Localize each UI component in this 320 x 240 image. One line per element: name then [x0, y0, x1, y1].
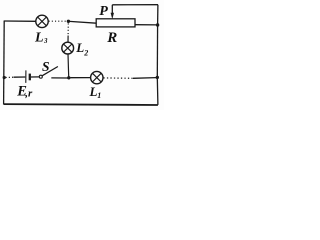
wire right vertical upper [157, 5, 159, 25]
junction node left middle [3, 76, 6, 79]
wire left vertical [3, 21, 6, 105]
svg-text:L: L [34, 30, 44, 45]
junction node right upper [156, 23, 159, 26]
svg-text:P: P [99, 4, 108, 19]
lamp L1 [91, 71, 103, 83]
wire dotted node A down [67, 23, 69, 36]
svg-text:3: 3 [43, 37, 48, 45]
svg-text:1: 1 [97, 91, 101, 100]
wire resistor right to corner [135, 24, 158, 26]
junction node B [67, 76, 70, 79]
wire right vertical lower [156, 77, 159, 105]
wire battery to switch [31, 76, 39, 78]
wire top-left horizontal [4, 20, 36, 22]
svg-text:2: 2 [83, 49, 88, 58]
wire dotted L3 to node A [49, 20, 66, 22]
svg-text:R: R [106, 30, 117, 46]
battery E,r [26, 70, 30, 83]
wire to battery [14, 76, 26, 78]
wire above lamp L2 [67, 36, 69, 43]
wire dotted from left node [6, 76, 14, 78]
slider arrow P [111, 5, 114, 19]
wire bottom horizontal [4, 103, 158, 106]
wire node B to lamp L1 [71, 77, 91, 79]
lamp L3 [36, 15, 48, 27]
svg-text:L: L [75, 40, 84, 55]
label S [42, 59, 50, 74]
svg-text:L: L [89, 84, 98, 99]
wire node A to resistor [70, 21, 97, 23]
label E,r [16, 84, 33, 100]
label R [106, 30, 117, 46]
resistor R [96, 19, 135, 27]
wire switch to node B [51, 77, 68, 79]
wire dotted lamp L1 right [103, 77, 133, 79]
wire right vertical middle [156, 25, 158, 77]
wire lamp L2 to node B [67, 54, 70, 77]
label L2 [75, 40, 88, 57]
label L3 [34, 30, 48, 45]
wire slider top horizontal [112, 4, 158, 6]
label L1 [89, 84, 102, 100]
switch S [39, 67, 58, 79]
junction node A [67, 20, 70, 23]
wire to right junction [133, 77, 156, 80]
lamp L2 [62, 42, 74, 54]
svg-text:,r: ,r [24, 88, 33, 100]
svg-text:S: S [42, 59, 50, 74]
label P [99, 4, 108, 19]
junction node right middle [156, 76, 159, 79]
